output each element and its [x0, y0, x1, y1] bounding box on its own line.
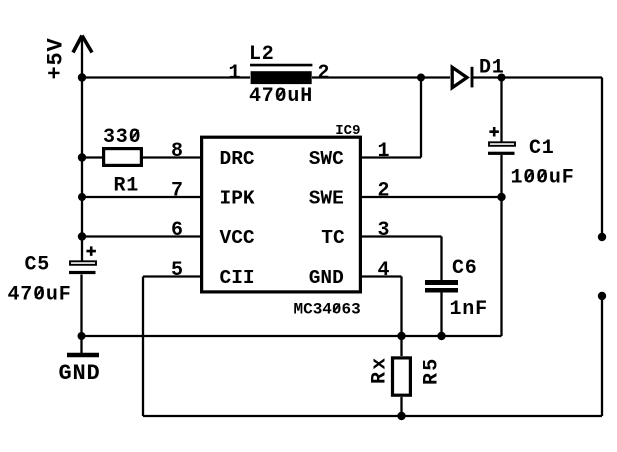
svg-text:GND: GND: [309, 267, 344, 289]
power +5V arrow: [73, 36, 92, 53]
pin name CII: [220, 267, 255, 289]
svg-text:R1: R1: [114, 175, 140, 198]
pin name SWC: [309, 148, 344, 170]
wire CII down: [142, 277, 144, 417]
wire IPK pin7: [82, 196, 200, 198]
svg-text:1nF: 1nF: [450, 298, 488, 321]
resistor R1: [104, 149, 142, 166]
wire diode to right corner: [472, 76, 603, 78]
value 100uF: [511, 167, 575, 190]
label IC9: [335, 123, 360, 139]
value 470uH: [249, 85, 313, 108]
svg-text:IPK: IPK: [220, 188, 255, 210]
svg-text:SWE: SWE: [309, 188, 344, 210]
slashed zero marks: [35, 89, 546, 312]
svg-text:SWC: SWC: [309, 148, 344, 170]
pin number 4: [378, 259, 391, 282]
junction rail pin7: [78, 193, 86, 201]
IC IC9 MC34063 box: [202, 137, 361, 292]
value 330: [103, 126, 141, 149]
label D1: [479, 57, 505, 80]
label C1: [529, 137, 555, 160]
pin name IPK: [220, 188, 255, 210]
junction C6 gnd: [437, 332, 445, 340]
wire pin4 down: [400, 277, 402, 337]
resistor R5: [393, 358, 411, 395]
pin 2 L2: [318, 62, 331, 85]
label GND: [59, 361, 101, 386]
wire right vertical to terminal bottom: [601, 296, 603, 416]
junction rail pin8: [78, 153, 86, 161]
svg-text:330: 330: [103, 126, 141, 149]
junction rail pin6: [78, 232, 86, 240]
svg-text:TC: TC: [321, 227, 345, 249]
capacitor C1: [488, 127, 515, 155]
wire SWE pin2: [362, 196, 502, 198]
pin name DRC: [220, 148, 255, 170]
wire top rail to L2: [82, 76, 250, 78]
wire +5V rail vertical: [81, 36, 83, 261]
svg-text:CII: CII: [220, 267, 255, 289]
junction SWE C1: [497, 193, 505, 201]
wire R1 left lead: [82, 156, 102, 158]
wire R5 top lead: [400, 336, 402, 356]
wire TC pin3: [362, 235, 442, 237]
svg-text:7: 7: [171, 180, 184, 203]
svg-text:470uF: 470uF: [8, 284, 72, 307]
pin number 6: [171, 219, 184, 242]
capacitor C6: [425, 280, 458, 293]
pin number 7: [171, 180, 184, 203]
svg-text:DRC: DRC: [220, 148, 255, 170]
label +5V: [44, 37, 69, 79]
junction SWC riser: [417, 74, 425, 82]
wire C1 top lead: [500, 78, 502, 142]
wire GND pin4: [362, 275, 402, 277]
wire right vertical to terminal: [601, 78, 603, 238]
svg-text:470uH: 470uH: [249, 85, 313, 108]
ground symbol: [67, 353, 99, 358]
svg-text:IC9: IC9: [335, 123, 360, 139]
label L2: [249, 43, 275, 66]
pin 1 L2: [229, 62, 242, 85]
svg-text:GND: GND: [59, 361, 101, 386]
pin number 5: [171, 259, 184, 282]
label MC34063: [294, 301, 361, 319]
svg-text:VCC: VCC: [220, 227, 255, 249]
svg-text:1: 1: [378, 140, 391, 163]
svg-text:Rx: Rx: [369, 356, 392, 384]
inductor L2: [250, 65, 312, 84]
junction C5 gnd: [78, 332, 86, 340]
svg-text:4: 4: [378, 259, 391, 282]
junction C1 top: [498, 74, 506, 82]
wire C6 bottom lead: [440, 293, 442, 337]
wire C5 bottom lead: [80, 275, 82, 337]
wire R5 bottom lead: [400, 397, 402, 416]
pin number 8: [171, 140, 184, 163]
svg-text:1: 1: [229, 62, 242, 85]
value 1nF: [450, 298, 488, 321]
wire C6 top lead: [440, 237, 442, 281]
svg-text:L2: L2: [249, 43, 275, 66]
label R5: [421, 357, 444, 385]
label Rx: [369, 356, 392, 384]
svg-text:MC34063: MC34063: [294, 301, 361, 319]
pin name GND: [309, 267, 344, 289]
wire C1 bottom lead: [500, 155, 502, 336]
pin name VCC: [220, 227, 255, 249]
svg-text:6: 6: [171, 219, 184, 242]
svg-text:3: 3: [378, 219, 391, 242]
value 470uF: [8, 284, 72, 307]
wire gnd stub: [80, 336, 82, 353]
wire R1 right lead: [143, 156, 200, 158]
wire VCC pin6: [82, 235, 200, 237]
diode D1: [452, 67, 472, 88]
label C5: [25, 254, 51, 277]
svg-text:C5: C5: [25, 254, 51, 277]
pin number 3: [378, 219, 391, 242]
svg-text:8: 8: [171, 140, 184, 163]
svg-text:2: 2: [378, 180, 391, 203]
capacitor C5: [69, 246, 96, 274]
wire SWC pin1 horizontal: [362, 156, 421, 158]
svg-text:2: 2: [318, 62, 331, 85]
svg-text:+5V: +5V: [44, 37, 69, 79]
pin number 1: [378, 140, 391, 163]
svg-text:R5: R5: [421, 357, 444, 385]
svg-text:C6: C6: [452, 257, 478, 280]
terminal pad top: [598, 233, 606, 241]
wire bottom net: [143, 415, 602, 417]
svg-text:100uF: 100uF: [511, 167, 575, 190]
label C6: [452, 257, 478, 280]
pin name SWE: [309, 188, 344, 210]
wire ground net horizontal: [82, 335, 502, 337]
junction pin4 gnd: [397, 332, 405, 340]
wire L2 to diode: [312, 76, 450, 78]
pin number 2: [378, 180, 391, 203]
label R1: [114, 175, 140, 198]
wire CII pin5 horizontal: [143, 275, 200, 277]
junction +5V rail top: [78, 73, 86, 81]
wire SWC riser: [420, 78, 422, 158]
svg-text:C1: C1: [529, 137, 555, 160]
svg-text:5: 5: [171, 259, 184, 282]
junction R5 bottom: [397, 412, 405, 420]
pin name TC: [321, 227, 345, 249]
terminal pad bottom: [598, 292, 606, 300]
